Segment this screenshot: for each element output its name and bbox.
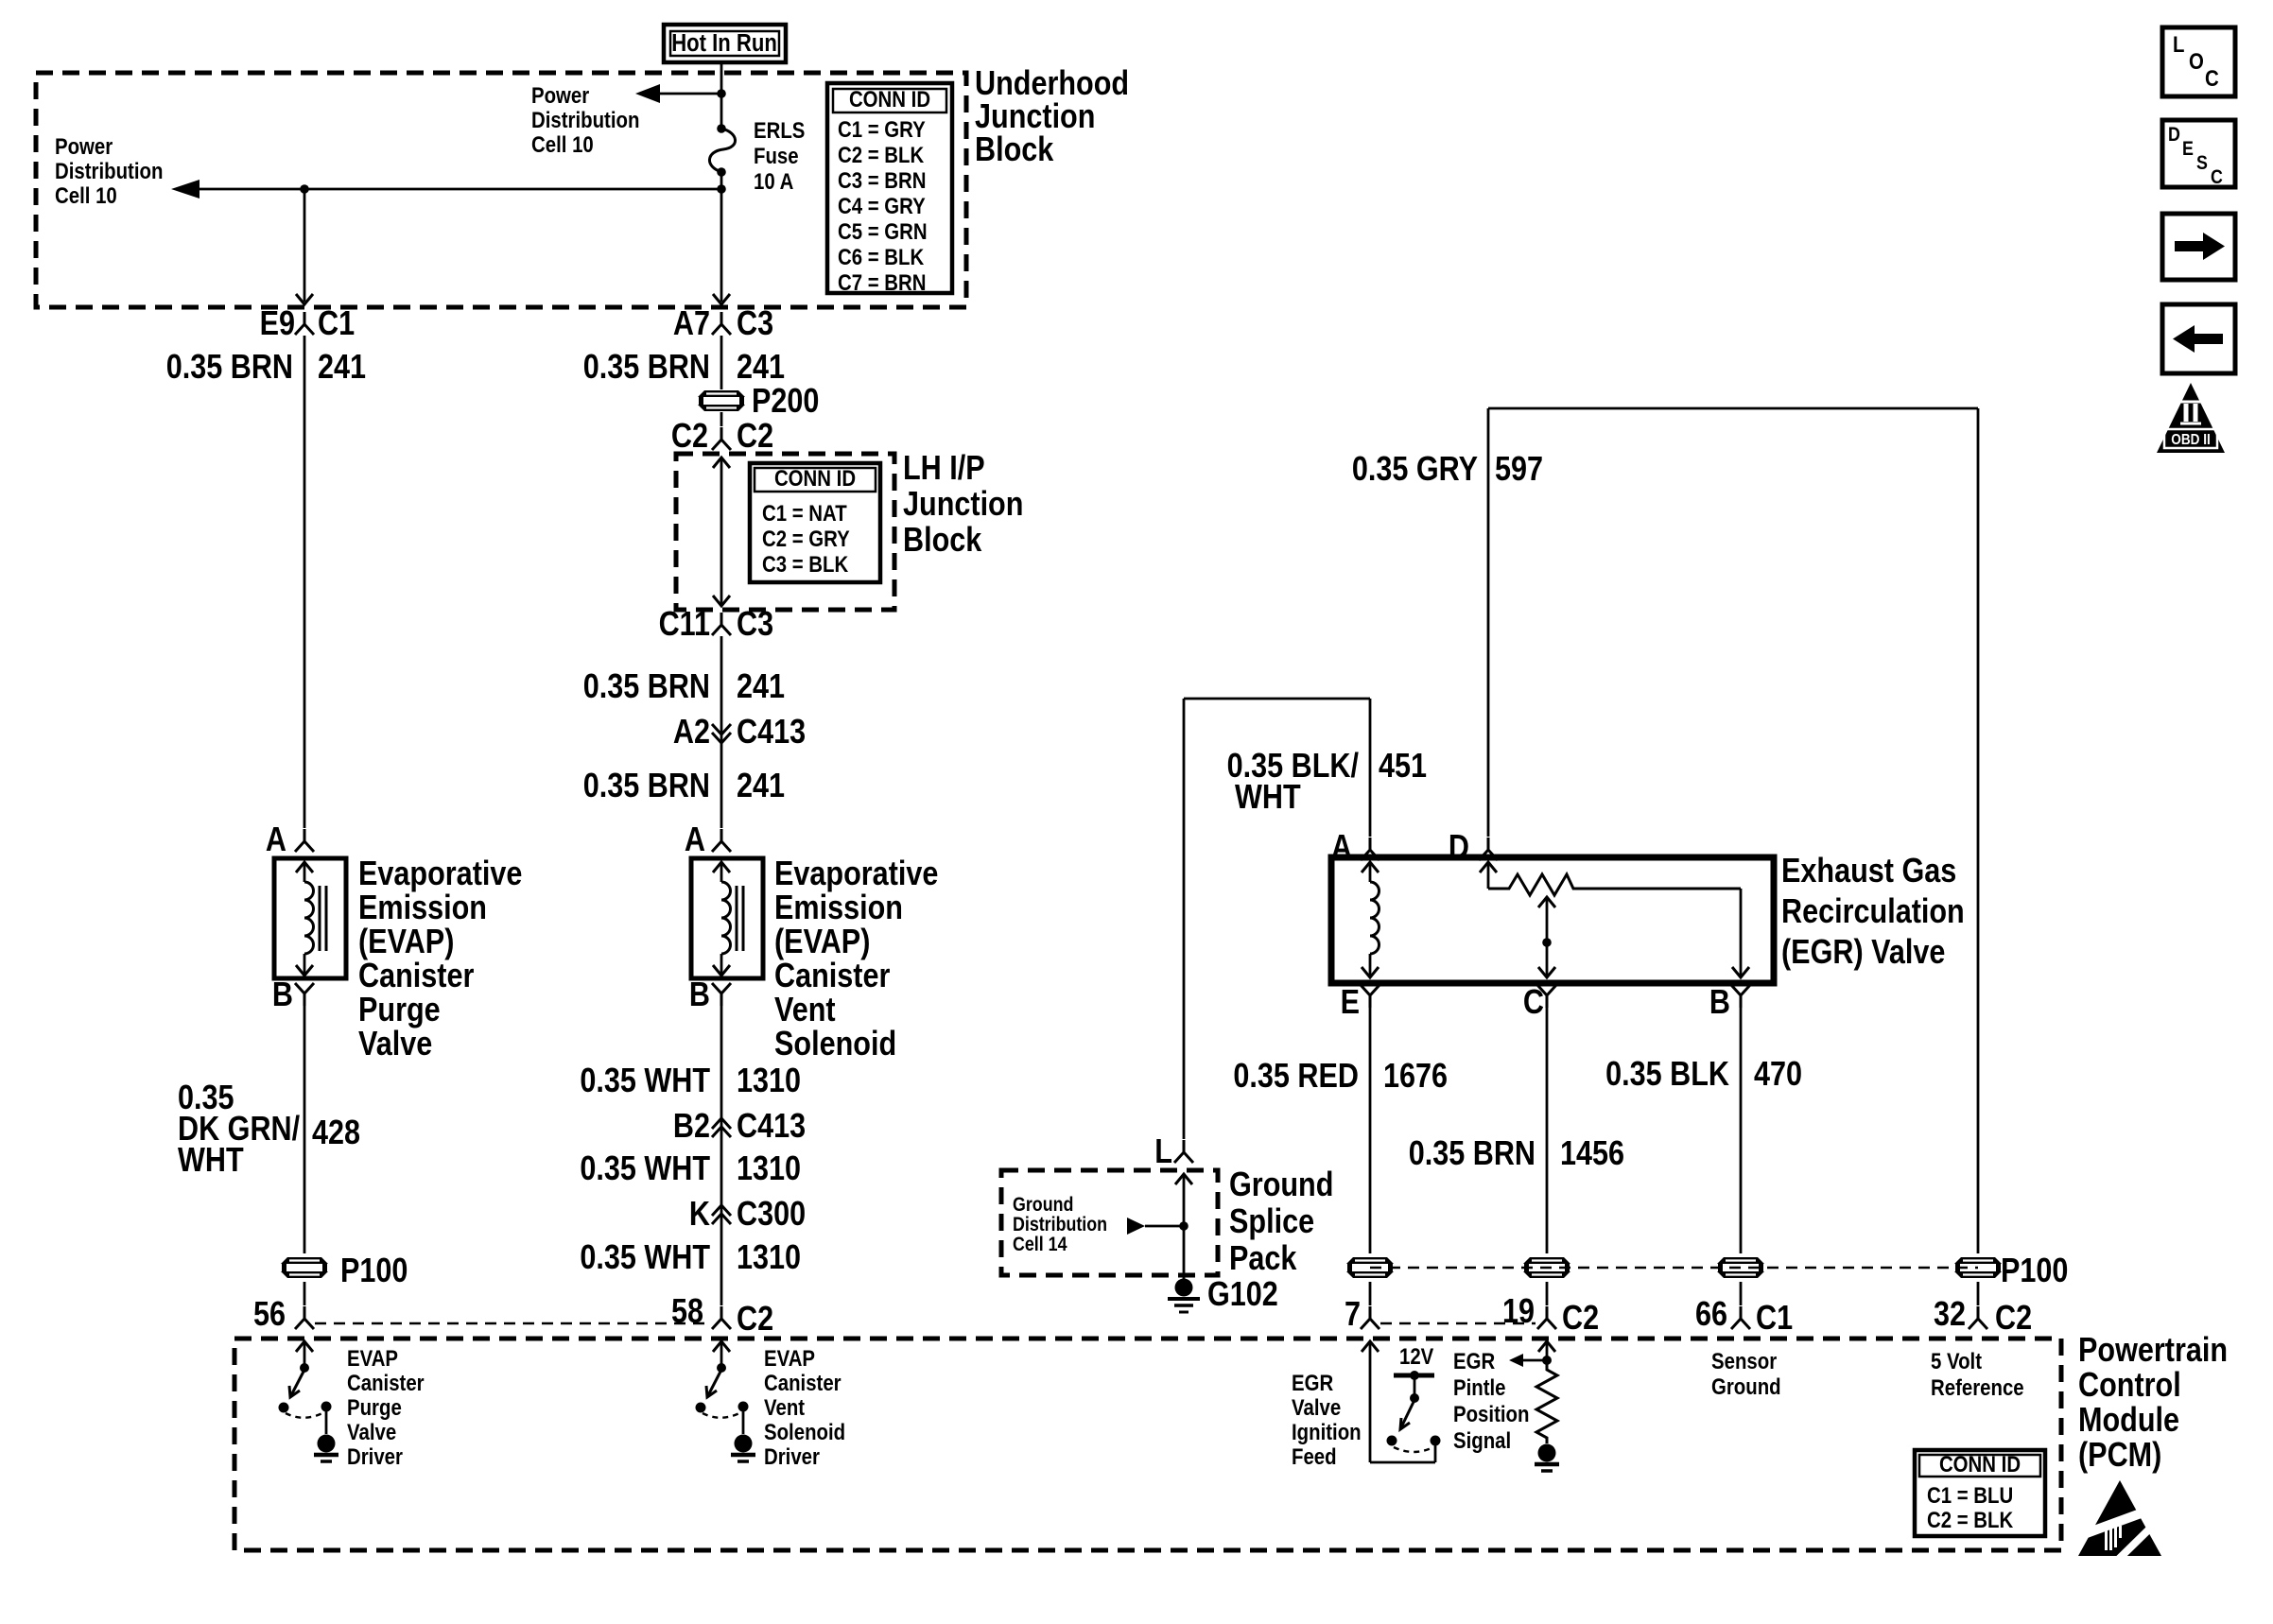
- svg-text:K: K: [689, 1196, 710, 1234]
- svg-text:C2 = BLK: C2 = BLK: [1927, 1507, 2013, 1532]
- svg-text:C2 = GRY: C2 = GRY: [762, 526, 850, 551]
- svg-text:O: O: [2189, 48, 2204, 74]
- svg-text:Emission: Emission: [358, 890, 487, 927]
- svg-text:1456: 1456: [1560, 1135, 1624, 1173]
- svg-text:241: 241: [737, 349, 785, 387]
- svg-text:C3 = BRN: C3 = BRN: [838, 167, 926, 193]
- svg-text:E9: E9: [260, 305, 295, 343]
- svg-text:B2: B2: [673, 1108, 710, 1146]
- svg-text:12V: 12V: [1399, 1343, 1433, 1369]
- svg-text:Sensor: Sensor: [1711, 1348, 1777, 1373]
- svg-text:241: 241: [737, 668, 785, 706]
- svg-text:CONN ID: CONN ID: [849, 86, 930, 112]
- svg-text:451: 451: [1379, 748, 1427, 786]
- svg-text:Purge: Purge: [358, 992, 441, 1029]
- svg-text:C1: C1: [318, 305, 355, 343]
- svg-text:Distribution: Distribution: [531, 107, 639, 132]
- svg-text:Distribution: Distribution: [55, 158, 163, 183]
- svg-text:C5 = GRN: C5 = GRN: [838, 218, 928, 244]
- svg-text:C2: C2: [1995, 1300, 2032, 1338]
- svg-text:Canister: Canister: [764, 1370, 842, 1395]
- svg-text:C413: C413: [737, 1108, 806, 1146]
- svg-text:C2: C2: [737, 1301, 773, 1339]
- svg-text:Junction: Junction: [903, 486, 1023, 524]
- svg-text:C413: C413: [737, 714, 806, 752]
- svg-text:0.35 BLK: 0.35 BLK: [1605, 1056, 1729, 1094]
- svg-text:Power: Power: [531, 82, 590, 108]
- svg-text:1310: 1310: [737, 1150, 801, 1188]
- svg-text:C1: C1: [1756, 1300, 1793, 1338]
- svg-text:1310: 1310: [737, 1063, 801, 1100]
- svg-text:C1 = GRY: C1 = GRY: [838, 116, 926, 142]
- svg-text:Reference: Reference: [1931, 1374, 2024, 1400]
- svg-text:A: A: [266, 821, 286, 859]
- svg-text:EGR: EGR: [1292, 1370, 1333, 1395]
- svg-text:Position: Position: [1453, 1401, 1529, 1426]
- svg-text:(EVAP): (EVAP): [774, 924, 870, 961]
- svg-text:241: 241: [318, 349, 366, 387]
- svg-text:A2: A2: [673, 714, 710, 752]
- svg-text:B: B: [689, 976, 710, 1014]
- svg-text:Power: Power: [55, 133, 113, 159]
- svg-text:Vent: Vent: [774, 992, 836, 1029]
- svg-text:Driver: Driver: [347, 1443, 403, 1469]
- svg-text:C2: C2: [737, 418, 773, 456]
- svg-text:428: 428: [312, 1114, 360, 1152]
- svg-text:E: E: [2182, 138, 2194, 161]
- svg-text:EGR: EGR: [1453, 1348, 1495, 1373]
- svg-text:Emission: Emission: [774, 890, 903, 927]
- svg-text:Ground: Ground: [1711, 1373, 1781, 1399]
- svg-text:Fuse: Fuse: [754, 143, 799, 168]
- svg-text:Valve: Valve: [1292, 1394, 1341, 1420]
- svg-text:(PCM): (PCM): [2078, 1437, 2161, 1475]
- svg-text:5 Volt: 5 Volt: [1931, 1348, 1983, 1373]
- svg-text:Signal: Signal: [1453, 1427, 1511, 1453]
- svg-text:S: S: [2196, 152, 2208, 175]
- svg-text:1676: 1676: [1383, 1058, 1448, 1096]
- svg-text:P100: P100: [340, 1253, 408, 1290]
- svg-text:Pack: Pack: [1229, 1240, 1297, 1278]
- svg-text:0.35 WHT: 0.35 WHT: [580, 1063, 710, 1100]
- svg-text:C3: C3: [737, 606, 773, 644]
- svg-text:B: B: [272, 976, 293, 1014]
- svg-text:0.35 GRY: 0.35 GRY: [1352, 451, 1478, 489]
- svg-text:0.35 WHT: 0.35 WHT: [580, 1150, 710, 1188]
- svg-text:(EVAP): (EVAP): [358, 924, 454, 961]
- svg-text:B: B: [1709, 984, 1730, 1022]
- svg-text:P200: P200: [752, 383, 819, 421]
- svg-text:C: C: [2205, 65, 2219, 91]
- svg-text:Solenoid: Solenoid: [764, 1419, 845, 1444]
- svg-text:EVAP: EVAP: [347, 1345, 398, 1371]
- svg-text:Driver: Driver: [764, 1443, 820, 1469]
- svg-text:Module: Module: [2078, 1402, 2179, 1440]
- svg-text:0.35 BRN: 0.35 BRN: [583, 668, 710, 706]
- svg-text:597: 597: [1495, 451, 1543, 489]
- svg-text:C3: C3: [737, 305, 773, 343]
- svg-text:56: 56: [253, 1296, 286, 1334]
- svg-text:Cell 10: Cell 10: [55, 182, 117, 208]
- svg-text:Junction: Junction: [975, 98, 1095, 136]
- svg-text:L: L: [2173, 31, 2184, 57]
- svg-text:470: 470: [1754, 1056, 1802, 1094]
- svg-text:C11: C11: [659, 606, 710, 644]
- svg-text:0.35 BRN: 0.35 BRN: [1409, 1135, 1536, 1173]
- svg-text:19: 19: [1502, 1293, 1535, 1331]
- svg-text:A7: A7: [673, 305, 710, 343]
- svg-text:WHT: WHT: [1235, 779, 1301, 817]
- svg-text:Control: Control: [2078, 1367, 2181, 1405]
- svg-text:C1 = BLU: C1 = BLU: [1927, 1482, 2013, 1508]
- svg-text:Canister: Canister: [347, 1370, 425, 1395]
- svg-text:Ignition: Ignition: [1292, 1419, 1362, 1444]
- svg-text:241: 241: [737, 768, 785, 805]
- svg-text:Canister: Canister: [774, 958, 890, 995]
- svg-text:Exhaust Gas: Exhaust Gas: [1781, 853, 1956, 890]
- svg-text:58: 58: [671, 1293, 703, 1331]
- svg-text:WHT: WHT: [178, 1142, 244, 1180]
- svg-text:ERLS: ERLS: [754, 117, 805, 143]
- svg-text:C4 = GRY: C4 = GRY: [838, 193, 926, 218]
- svg-text:Hot In Run: Hot In Run: [671, 29, 777, 57]
- svg-text:Ground: Ground: [1229, 1166, 1333, 1204]
- svg-text:0.35 BRN: 0.35 BRN: [583, 349, 710, 387]
- svg-text:D: D: [1449, 829, 1469, 867]
- svg-text:L: L: [1154, 1133, 1172, 1171]
- svg-text:C7 = BRN: C7 = BRN: [838, 269, 926, 295]
- svg-text:C3 = BLK: C3 = BLK: [762, 551, 848, 577]
- svg-text:C2 = BLK: C2 = BLK: [838, 142, 924, 167]
- svg-text:OBD II: OBD II: [2171, 432, 2211, 448]
- svg-text:CONN ID: CONN ID: [774, 465, 856, 491]
- svg-text:Splice: Splice: [1229, 1203, 1314, 1241]
- svg-text:0.35 BRN: 0.35 BRN: [166, 349, 293, 387]
- svg-text:1310: 1310: [737, 1239, 801, 1277]
- svg-text:32: 32: [1934, 1296, 1966, 1334]
- svg-text:CONN ID: CONN ID: [1939, 1451, 2021, 1477]
- svg-text:G102: G102: [1207, 1276, 1278, 1314]
- svg-text:C: C: [2211, 166, 2223, 189]
- svg-text:Purge: Purge: [347, 1394, 402, 1420]
- svg-text:Valve: Valve: [358, 1026, 432, 1063]
- svg-text:P100: P100: [2001, 1253, 2068, 1290]
- svg-text:Block: Block: [975, 131, 1054, 169]
- svg-text:0.35 WHT: 0.35 WHT: [580, 1239, 710, 1277]
- svg-text:Underhood: Underhood: [975, 65, 1129, 103]
- svg-text:D: D: [2168, 124, 2180, 147]
- svg-text:A: A: [685, 821, 705, 859]
- svg-text:Block: Block: [903, 522, 982, 560]
- svg-text:Canister: Canister: [358, 958, 474, 995]
- svg-text:Solenoid: Solenoid: [774, 1026, 896, 1063]
- svg-text:C6 = BLK: C6 = BLK: [838, 244, 924, 269]
- svg-text:Cell 14: Cell 14: [1013, 1234, 1067, 1256]
- svg-text:(EGR) Valve: (EGR) Valve: [1781, 934, 1945, 972]
- svg-text:66: 66: [1695, 1296, 1727, 1334]
- svg-text:0.35 BRN: 0.35 BRN: [583, 768, 710, 805]
- svg-text:Feed: Feed: [1292, 1443, 1337, 1469]
- svg-text:C2: C2: [1562, 1300, 1599, 1338]
- svg-text:Evaporative: Evaporative: [774, 855, 938, 893]
- svg-text:E: E: [1341, 984, 1360, 1022]
- svg-text:Valve: Valve: [347, 1419, 396, 1444]
- svg-text:C: C: [1523, 984, 1544, 1022]
- svg-text:10 A: 10 A: [754, 168, 793, 194]
- svg-text:Powertrain: Powertrain: [2078, 1332, 2228, 1370]
- svg-text:C1 = NAT: C1 = NAT: [762, 500, 847, 526]
- svg-text:Recirculation: Recirculation: [1781, 893, 1965, 931]
- svg-text:Cell 10: Cell 10: [531, 131, 594, 157]
- svg-text:C2: C2: [671, 418, 708, 456]
- svg-text:LH I/P: LH I/P: [903, 450, 985, 488]
- svg-text:Pintle: Pintle: [1453, 1374, 1506, 1400]
- svg-text:0.35 RED: 0.35 RED: [1233, 1058, 1359, 1096]
- svg-text:EVAP: EVAP: [764, 1345, 815, 1371]
- svg-text:Evaporative: Evaporative: [358, 855, 522, 893]
- svg-text:C300: C300: [737, 1196, 806, 1234]
- svg-text:Vent: Vent: [764, 1394, 806, 1420]
- svg-text:7: 7: [1345, 1296, 1361, 1334]
